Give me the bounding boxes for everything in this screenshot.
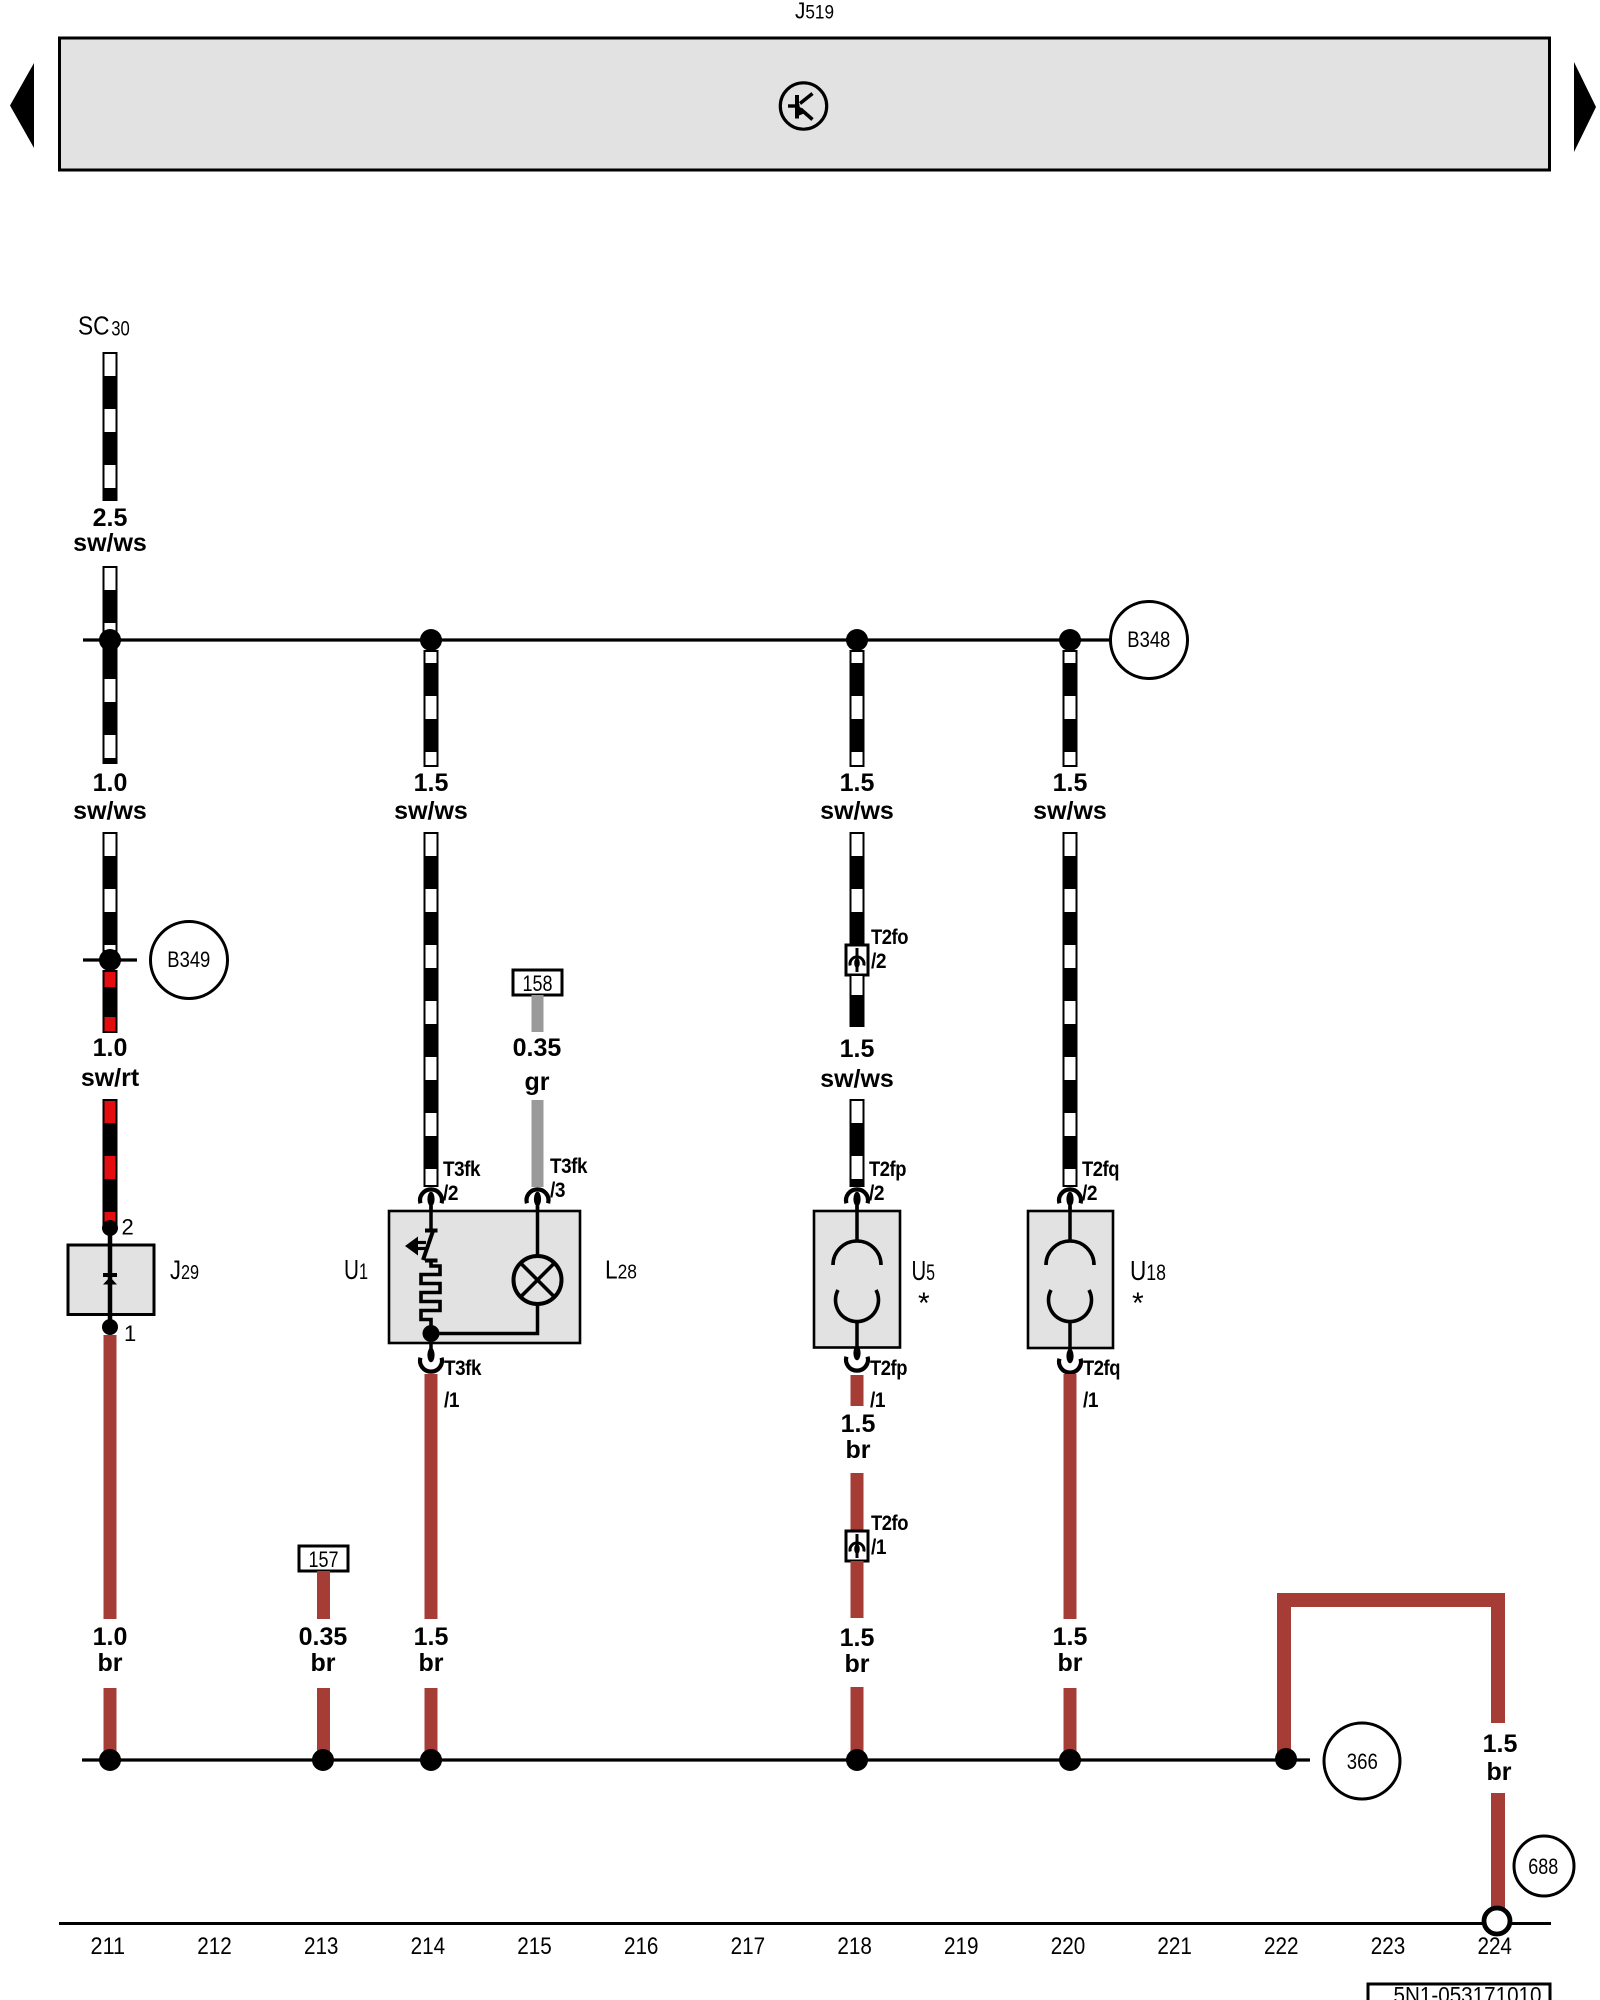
- svg-text:1.5: 1.5: [1053, 769, 1088, 797]
- socket U5 box: [814, 1211, 900, 1348]
- svg-text:216: 216: [624, 1933, 659, 1960]
- U1 heater meander: [421, 1260, 440, 1333]
- wire 1.5 br to ground bus: [851, 1687, 864, 1753]
- connector T2fq/2: [1059, 1189, 1081, 1212]
- svg-text:T3fk: T3fk: [550, 1155, 588, 1178]
- svg-text:223: 223: [1371, 1933, 1406, 1960]
- inline connector T2fo/1: [846, 1531, 868, 1561]
- svg-text:T3fk: T3fk: [443, 1158, 481, 1181]
- svg-text:1.0: 1.0: [93, 769, 128, 797]
- svg-text:224: 224: [1477, 1933, 1512, 1960]
- svg-text:1.5: 1.5: [841, 1410, 876, 1438]
- svg-text:1.5: 1.5: [840, 1624, 875, 1652]
- wire 1.5 sw/ws below bus at 214: [425, 651, 438, 766]
- svg-text:/2: /2: [871, 950, 886, 973]
- svg-text:T2fo: T2fo: [871, 1512, 908, 1535]
- wire 1.5 sw/ws below T2fo/2: [851, 975, 864, 1026]
- svg-text:J29: J29: [170, 1255, 199, 1285]
- svg-text:sw/ws: sw/ws: [73, 529, 147, 557]
- svg-text:/1: /1: [871, 1536, 887, 1559]
- svg-text:sw/rt: sw/rt: [81, 1064, 140, 1092]
- svg-text:217: 217: [731, 1933, 766, 1960]
- svg-text:sw/ws: sw/ws: [820, 1065, 894, 1093]
- svg-text:B349: B349: [167, 947, 210, 972]
- svg-text:219: 219: [944, 1933, 979, 1960]
- lighter U1 / lamp L28 box: [389, 1211, 580, 1343]
- svg-text:213: 213: [304, 1933, 339, 1960]
- bus wire B348 (horizontal): [83, 638, 1110, 641]
- junction dot 220: [1059, 1749, 1081, 1771]
- svg-text:220: 220: [1051, 1933, 1086, 1960]
- svg-text:214: 214: [411, 1933, 446, 1960]
- U18 socket symbol: [1046, 1241, 1094, 1322]
- svg-text:688: 688: [1528, 1854, 1558, 1879]
- svg-text:5N1-053171010: 5N1-053171010: [1394, 1982, 1542, 2000]
- wire 0.35 gr to T3fk/3: [532, 1100, 544, 1187]
- ground bus wire (horizontal): [82, 1758, 1310, 1761]
- svg-text:1.0: 1.0: [93, 1623, 128, 1651]
- wire 1.5 br below U18: [1064, 1374, 1077, 1619]
- svg-text:br: br: [419, 1649, 444, 1677]
- connector T2fp/1 below U5: [846, 1346, 868, 1371]
- junction dot 222: [1275, 1748, 1297, 1770]
- junction dot 211: [99, 1749, 121, 1771]
- connector T2fq/1 below U18: [1059, 1349, 1081, 1373]
- plug 158 box: [513, 970, 562, 995]
- svg-text:1.5: 1.5: [1053, 1623, 1088, 1651]
- svg-text:br: br: [1487, 1758, 1512, 1786]
- wire 1.5 sw/ws long to T2fq/2: [1064, 833, 1077, 1186]
- plug 157 box: [299, 1546, 348, 1571]
- wire 2.5 sw/ws from SC30 (striped): [104, 353, 117, 500]
- wire 1.5 br to ground bus: [425, 1688, 438, 1756]
- inline connector T2fo/2: [846, 945, 868, 975]
- junction dot 214: [420, 1749, 442, 1771]
- svg-text:0.35: 0.35: [513, 1034, 562, 1062]
- svg-text:T3fk: T3fk: [444, 1357, 482, 1380]
- wire 0.35 br stub below 157: [317, 1571, 330, 1619]
- svg-text:366: 366: [1347, 1749, 1378, 1774]
- junction dot at 218: [846, 629, 868, 651]
- wire 0.35 gr stub: [532, 995, 544, 1032]
- svg-text:T2fp: T2fp: [869, 1158, 906, 1181]
- U1 pop-out arrow: [405, 1237, 418, 1256]
- svg-text:sw/ws: sw/ws: [820, 797, 894, 825]
- U18 lead-out: [1068, 1321, 1072, 1350]
- svg-text:/2: /2: [1082, 1182, 1097, 1205]
- wire from U1 to L28: [431, 1304, 538, 1334]
- wire 1.5 sw/ws below bus at 218: [851, 651, 864, 766]
- nav arrow right: [1574, 62, 1596, 152]
- svg-text:br: br: [98, 1649, 123, 1677]
- svg-text:sw/ws: sw/ws: [394, 797, 468, 825]
- svg-text:SC: SC: [78, 311, 110, 341]
- svg-text:1: 1: [124, 1321, 136, 1346]
- U1 slash: [423, 1231, 433, 1260]
- svg-text:U5: U5: [912, 1255, 936, 1286]
- svg-text:U1: U1: [344, 1254, 368, 1285]
- wire 1.5 br loop to terminal 688: [1284, 1600, 1498, 1754]
- wire 1.5 br to ground bus: [1064, 1688, 1077, 1756]
- node B349 circle: [151, 922, 228, 999]
- connector T3fk/2: [420, 1189, 442, 1212]
- connector T2fp/2: [846, 1189, 868, 1212]
- svg-text:J519: J519: [795, 0, 834, 24]
- node B348 circle: [1111, 602, 1188, 679]
- svg-text:sw/ws: sw/ws: [73, 797, 147, 825]
- connector T3fk/3: [527, 1189, 549, 1212]
- lamp L28 symbol: [514, 1256, 562, 1304]
- wire 1.0 sw/ws into bus B348: [104, 567, 117, 763]
- svg-text:1.5: 1.5: [1483, 1730, 1518, 1758]
- svg-text:215: 215: [517, 1933, 552, 1960]
- U5 lead-in: [855, 1206, 859, 1242]
- junction dot at 214: [420, 629, 442, 651]
- wire 1.0 sw/rt below B349: [104, 971, 117, 1032]
- svg-text:br: br: [845, 1650, 870, 1678]
- wire 0.35 br to ground bus: [317, 1688, 330, 1756]
- junction dot 213: [312, 1749, 334, 1771]
- svg-text:/2: /2: [443, 1182, 458, 1205]
- svg-text:222: 222: [1264, 1933, 1299, 1960]
- svg-text:1.0: 1.0: [93, 1034, 128, 1062]
- control unit J519 bar: [60, 38, 1550, 170]
- svg-text:B348: B348: [1127, 627, 1170, 652]
- svg-text:/2: /2: [869, 1182, 884, 1205]
- J29 internal wire: [108, 1228, 113, 1327]
- svg-text:/3: /3: [550, 1179, 565, 1202]
- wire 1.5 br to T2fo/1: [851, 1473, 864, 1531]
- socket U18 box: [1028, 1211, 1113, 1348]
- U5 socket symbol: [833, 1241, 881, 1322]
- U1 tick bottom: [425, 1259, 438, 1263]
- junction dot B349: [99, 949, 121, 971]
- svg-text:T2fo: T2fo: [871, 926, 908, 949]
- svg-text:158: 158: [523, 971, 553, 996]
- U5 lead-out: [855, 1321, 859, 1348]
- svg-text:221: 221: [1157, 1933, 1192, 1960]
- U18 lead-in: [1068, 1206, 1072, 1242]
- junction dot at 211: [99, 629, 121, 651]
- node B349 tick: [83, 958, 137, 961]
- U1 tick top: [425, 1229, 438, 1233]
- node 366 circle: [1324, 1723, 1400, 1799]
- svg-text:1.5: 1.5: [840, 1035, 875, 1063]
- U1 junction dot: [423, 1325, 440, 1342]
- svg-text:/1: /1: [1083, 1389, 1099, 1412]
- svg-text:212: 212: [197, 1933, 232, 1960]
- svg-text:30: 30: [111, 318, 130, 341]
- svg-text:/1: /1: [870, 1389, 886, 1412]
- svg-text:*: *: [918, 1287, 930, 1320]
- wire 1.5 br below U5: [851, 1375, 864, 1406]
- wire 1.5 br lower to terminal: [1491, 1793, 1505, 1909]
- svg-text:*: *: [1132, 1287, 1144, 1320]
- diode symbol in J29: [103, 1275, 117, 1285]
- svg-text:218: 218: [837, 1933, 872, 1960]
- svg-text:2.5: 2.5: [93, 504, 128, 532]
- junction dot 218: [846, 1749, 868, 1771]
- wire 1.0 sw/ws down to node B349: [104, 833, 117, 951]
- svg-text:U18: U18: [1130, 1255, 1166, 1286]
- svg-text:T2fq: T2fq: [1082, 1158, 1119, 1181]
- J29 internal wire over box: [108, 1245, 113, 1315]
- wire 1.0 br to ground bus: [104, 1688, 117, 1756]
- pin 1 dot: [102, 1319, 118, 1335]
- pin 2 dot: [102, 1220, 118, 1236]
- svg-text:/1: /1: [444, 1389, 460, 1412]
- node 688 circle: [1514, 1836, 1574, 1896]
- svg-text:211: 211: [91, 1933, 126, 1960]
- svg-text:gr: gr: [525, 1068, 550, 1096]
- svg-text:T2fp: T2fp: [870, 1357, 907, 1380]
- svg-text:br: br: [311, 1649, 336, 1677]
- J519 terminal symbol (circled light-switch icon): [780, 83, 826, 129]
- wire 1.5 br below U1: [425, 1374, 438, 1619]
- part number box: [1368, 1984, 1550, 2000]
- svg-text:0.35: 0.35: [299, 1623, 348, 1651]
- wire 1.5 sw/ws below bus at 220: [1064, 651, 1077, 766]
- bottom rail: [59, 1922, 1551, 1925]
- svg-text:sw/ws: sw/ws: [1033, 797, 1107, 825]
- junction dot at 220: [1059, 629, 1081, 651]
- wire 1.0 br from J29 pin 1: [104, 1335, 117, 1619]
- wire 1.5 sw/ws long to T3fk/2: [425, 833, 438, 1186]
- connector T3fk/1 below U1: [420, 1343, 442, 1372]
- wire 1.5 sw/ws to T2fp/2: [851, 1100, 864, 1186]
- svg-text:br: br: [846, 1436, 871, 1464]
- svg-text:2: 2: [122, 1215, 134, 1240]
- wire 1.5 sw/ws to T2fo/2: [851, 833, 864, 945]
- svg-text:157: 157: [309, 1547, 339, 1572]
- relay J29 box: [68, 1245, 154, 1315]
- svg-text:T2fq: T2fq: [1083, 1357, 1120, 1380]
- svg-text:L28: L28: [605, 1255, 637, 1285]
- L28 lead-in: [536, 1206, 540, 1258]
- U1 lighter element: lead-in: [429, 1206, 433, 1230]
- svg-text:br: br: [1058, 1649, 1083, 1677]
- wire 1.5 br below T2fo/1: [851, 1561, 864, 1618]
- ground terminal 688 open circle: [1484, 1908, 1510, 1934]
- svg-text:1.5: 1.5: [414, 769, 449, 797]
- svg-text:1.5: 1.5: [840, 769, 875, 797]
- nav arrow left: [10, 63, 34, 148]
- wire 1.0 sw/rt to J29 pin 2: [104, 1100, 117, 1228]
- svg-text:1.5: 1.5: [414, 1623, 449, 1651]
